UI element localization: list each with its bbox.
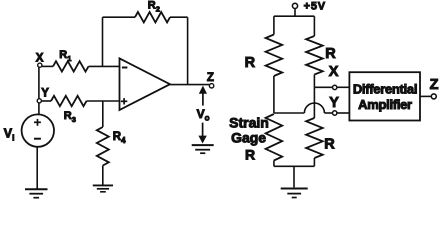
svg-text:X: X — [36, 53, 44, 65]
node Z (right) — [431, 94, 436, 99]
op-amp inverting pin mark (-) — [122, 67, 128, 69]
op-amp non-inverting pin mark (+) — [121, 98, 127, 104]
wire Y to Vi — [38, 103, 40, 115]
wire R3 to op-amp non-inverting input — [87, 100, 120, 102]
wire lower R to bottom rail — [313, 158, 315, 166]
svg-text:X: X — [329, 64, 339, 80]
wire Y junction to hop — [274, 112, 305, 114]
wire op-amp output to Z — [170, 84, 209, 86]
wire R4 to ground — [102, 166, 104, 186]
wire Y to R3 — [41, 100, 51, 102]
wire Vi to ground — [36, 147, 38, 189]
wire strain gage to bottom rail — [273, 161, 275, 167]
Vo arrow down to ground — [198, 123, 206, 144]
svg-text:Z: Z — [207, 72, 214, 84]
node Z (left) — [209, 84, 213, 88]
+5V terminal — [292, 3, 297, 8]
wire X to R1 — [42, 65, 53, 67]
svg-text:R1: R1 — [59, 49, 71, 63]
Vo arrow up — [199, 86, 207, 106]
ground below bridge — [281, 189, 308, 198]
wire +5V stem — [294, 9, 296, 17]
node Y — [37, 99, 41, 103]
Vi minus mark — [34, 138, 41, 140]
resistor R (bridge top-right) — [306, 36, 323, 75]
wire X junction down to lower R — [313, 87, 315, 118]
svg-text:Y: Y — [41, 87, 49, 99]
wire amplifier to node Z — [420, 95, 431, 97]
ground below Vo — [192, 145, 214, 153]
wire R3 node to R4 — [102, 101, 104, 127]
Vi plus mark — [34, 119, 41, 126]
wire hop to node Y — [324, 112, 332, 114]
wire feedback left vertical — [102, 17, 104, 66]
svg-text:StrainGageR: StrainGageR — [229, 115, 269, 163]
wire feedback right vertical to output — [187, 17, 189, 84]
wire right R to X junction — [313, 75, 315, 88]
wire R2 left lead — [103, 16, 136, 18]
wire hop over right arm — [304, 103, 324, 113]
resistor R3 — [51, 96, 87, 106]
wire node X to amplifier box — [337, 86, 350, 88]
svg-text:R: R — [245, 55, 256, 71]
wire X junction to node X — [314, 86, 332, 88]
op-amp U1 — [120, 58, 171, 110]
resistor R2 — [135, 12, 170, 22]
wire top rail to left R — [273, 16, 275, 34]
node X (right) — [333, 85, 337, 89]
resistor R (bridge top-left) — [266, 35, 283, 77]
differential amplifier box U2 — [349, 72, 420, 120]
node X — [38, 63, 42, 67]
node Y (right) — [333, 111, 337, 115]
svg-text:Vi: Vi — [4, 126, 15, 142]
voltage source Vi — [22, 114, 54, 146]
resistor Strain Gage — [266, 114, 283, 161]
wire left R to Y junction — [273, 76, 275, 113]
svg-text:DifferentialAmplifier: DifferentialAmplifier — [353, 82, 417, 112]
svg-text:Vo: Vo — [197, 107, 210, 123]
wire top rail — [274, 15, 315, 17]
wire node Y to amplifier box — [337, 112, 350, 114]
ground below Vi — [25, 189, 48, 197]
wire bottom rail — [274, 165, 315, 167]
svg-text:+5V: +5V — [304, 1, 326, 13]
svg-text:R: R — [324, 137, 335, 153]
wire R2 right lead — [170, 16, 188, 18]
resistor R (bridge bottom-right) — [306, 118, 323, 158]
ground below R4 — [93, 185, 113, 191]
svg-text:Z: Z — [430, 77, 439, 93]
resistor R1 — [53, 61, 89, 71]
resistor R4 — [97, 127, 109, 166]
svg-text:R2: R2 — [148, 0, 160, 13]
svg-text:R3: R3 — [64, 110, 76, 124]
wire bottom rail to ground — [293, 166, 295, 187]
svg-text:R4: R4 — [113, 131, 126, 145]
wire R1 to op-amp inverting input — [89, 65, 120, 67]
svg-text:R: R — [325, 46, 336, 62]
svg-text:Y: Y — [329, 95, 339, 111]
wire top rail to right R — [313, 16, 315, 36]
wire X to Vi (left vertical) — [38, 67, 40, 98]
